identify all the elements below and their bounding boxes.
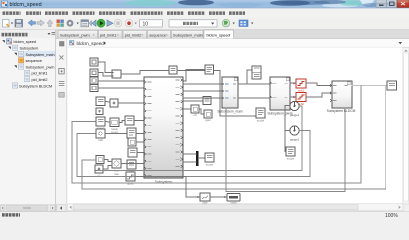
- wire big block to T1: [183, 100, 202, 102]
- svg-text:bldcm_speed: bldcm_speed: [77, 41, 105, 46]
- source block b2: [90, 69, 98, 77]
- toolbar: gear icon: [67, 20, 79, 27]
- svg-text:×: ×: [199, 32, 201, 37]
- toolbar: board icon: [239, 20, 253, 27]
- wire big block to T2: [183, 108, 190, 110]
- wire big block port1 to S2: [183, 70, 204, 81]
- display block T5: [205, 153, 214, 167]
- toolbar: [0, 18, 409, 30]
- block BL1: [200, 193, 210, 205]
- tab Subsystem_pwm: [58, 30, 98, 38]
- wire D3 to big block: [136, 141, 143, 143]
- svg-text:scope: scope: [257, 119, 265, 123]
- status bar: [0, 211, 409, 219]
- wire Q1 to BL1: [135, 177, 199, 198]
- block D3: [128, 138, 136, 146]
- svg-text:pid_limit1: pid_limit1: [100, 32, 116, 37]
- breadcrumb bar: [67, 39, 409, 48]
- block D4: [128, 148, 137, 162]
- svg-text:hall: hall: [98, 138, 103, 142]
- svg-text:pid_limit1: pid_limit1: [32, 72, 48, 76]
- svg-text:×: ×: [93, 32, 95, 37]
- toolbar: back arrow: [28, 20, 36, 26]
- mux bar MX: [196, 151, 199, 166]
- row Subsystem BLDCM: [13, 83, 18, 88]
- menu bar: [0, 8, 409, 17]
- svg-text:×: ×: [228, 32, 230, 37]
- block Q1 quantizer: [126, 172, 135, 186]
- toolbar: forward arrow: [37, 20, 45, 26]
- feedback loop L4 from B5 branch: [82, 160, 386, 189]
- app icon: [2, 1, 8, 7]
- svg-text:×: ×: [117, 32, 119, 37]
- red block R2: [296, 93, 306, 107]
- left panel: model browser: [0, 30, 56, 211]
- toolbar: up arrow: [47, 20, 53, 27]
- wire into B6: [284, 151, 287, 153]
- feedback loop L3 from B4 output: [72, 86, 361, 183]
- wire R1 to B4: [306, 83, 331, 86]
- toolbar: run button: [97, 19, 105, 27]
- svg-text:gauge1: gauge1: [290, 113, 300, 117]
- mux block M1: [112, 70, 121, 78]
- subsystem block M3: [267, 77, 292, 116]
- palette icon: box: [59, 93, 64, 98]
- row Subsystem_main: [18, 51, 56, 57]
- wire BL1 to BL2: [210, 196, 226, 198]
- svg-text:scope: scope: [287, 157, 295, 161]
- row bldcm_speed: [2, 40, 5, 43]
- row pid_limit1: [25, 70, 30, 75]
- svg-text:bldcm_speed: bldcm_speed: [14, 40, 37, 44]
- toolbar: record button: [125, 19, 137, 27]
- source block U3: [96, 108, 103, 115]
- wire W2 to V1: [119, 121, 125, 123]
- svg-text:×: ×: [166, 32, 168, 37]
- tab pid_limit2: [123, 30, 147, 38]
- tab sequence: [148, 30, 171, 38]
- wire M2 to M3 top: [247, 83, 269, 85]
- palette icon: pointer: [60, 42, 65, 47]
- svg-text:sequence: sequence: [149, 32, 166, 37]
- wires into MX: [183, 154, 196, 162]
- sum block G2: [112, 159, 121, 176]
- wire b2 to M1: [98, 73, 112, 77]
- gauge block C2: [290, 126, 300, 141]
- svg-text:Subsystem_pwm: Subsystem_pwm: [26, 65, 55, 69]
- wire T2 to T3: [199, 109, 203, 114]
- left panel h-scrollbar: [0, 205, 56, 212]
- wire M2 to SD1: [238, 70, 251, 84]
- svg-text:gauge2: gauge2: [290, 137, 300, 141]
- gain block U2: [110, 99, 118, 107]
- wire MX to T5: [199, 157, 204, 159]
- wire b3 to big block row1: [98, 80, 143, 82]
- toolbar: library icon: [57, 20, 64, 27]
- wire S1 to SD2 tap: [177, 71, 255, 117]
- wire R2 to B4: [306, 93, 331, 97]
- wire B4 to B5 (highlighted): [352, 85, 386, 87]
- block T2: [191, 105, 199, 117]
- caption buttons: [376, 0, 409, 8]
- toolbar: build icon: [222, 19, 235, 27]
- svg-text:Subsystem_pwm: Subsystem_pwm: [60, 32, 90, 37]
- stacked display SD1: [252, 66, 261, 79]
- block BL2: [227, 194, 240, 205]
- tab bldcm_speed active: [204, 30, 234, 39]
- row Subsystem: [8, 47, 11, 50]
- block D5: [127, 160, 136, 174]
- tree rows: [2, 39, 55, 89]
- tab Subsystem_main: [172, 30, 204, 38]
- vertical scrollbar: [403, 47, 409, 204]
- svg-text:Subsystem_main: Subsystem_main: [26, 53, 55, 57]
- display block U1: [96, 97, 105, 106]
- title bar: [0, 0, 409, 8]
- svg-text:pid_limit2: pid_limit2: [32, 78, 48, 82]
- wire V1 to big block: [134, 120, 143, 122]
- palette strip: [56, 39, 67, 212]
- source block P3a: [96, 156, 104, 164]
- tab bar: [56, 30, 409, 39]
- wire b4 to big block row2: [98, 87, 143, 89]
- toolbar: stop button: [114, 19, 122, 27]
- row sequence: [19, 58, 24, 63]
- row pid_limit2: [25, 77, 30, 82]
- svg-text:gain: gain: [205, 118, 211, 122]
- svg-text:scope: scope: [206, 163, 214, 167]
- feedback loop L5 from B4 bottom: [226, 108, 345, 192]
- row Subsystem_pwm: [14, 65, 17, 68]
- palette icon: lines: [59, 81, 65, 86]
- wire b1 to M1: [98, 62, 112, 73]
- red block R1: [296, 79, 306, 93]
- display block D2: [127, 128, 136, 143]
- wire G2 to big block: [121, 163, 143, 165]
- display block B6: [286, 147, 295, 161]
- palette icon: zoom: [59, 55, 63, 59]
- toolbar: config window icon: [81, 20, 89, 27]
- palette collapse button: [57, 205, 67, 212]
- display block S2: [205, 65, 214, 74]
- toolbar: step forward button: [107, 20, 113, 26]
- wire M3 to R1: [290, 82, 295, 84]
- svg-text:×: ×: [141, 32, 143, 37]
- wire W3 to big block: [105, 133, 143, 135]
- wire W1 to W2: [105, 121, 110, 124]
- svg-text:bldcm_speed: bldcm_speed: [10, 2, 42, 8]
- wire U1 to U2: [105, 101, 110, 104]
- wire M3 to R2: [290, 96, 295, 98]
- display block D1: [125, 116, 134, 125]
- svg-text:bldcm_speed: bldcm_speed: [207, 32, 230, 37]
- display block SD2: [256, 108, 265, 123]
- svg-text:100%: 100%: [385, 213, 398, 217]
- tab pid_limit1: [99, 30, 123, 38]
- toolbar: mode combo: [169, 20, 217, 27]
- svg-text:rate: rate: [114, 172, 119, 176]
- wire M2 to M3 bottom: [238, 97, 269, 99]
- toolbar: stop time field: [140, 20, 163, 28]
- display block W1: [96, 117, 105, 130]
- horizontal scrollbar: [67, 204, 403, 211]
- gain block W2: [110, 118, 119, 134]
- gauge block C1: [290, 101, 300, 116]
- svg-text:Subsystem BLDCM: Subsystem BLDCM: [19, 84, 52, 88]
- toolbar: new icon: [3, 20, 14, 28]
- inline block S1: [169, 66, 177, 74]
- wire P3b to G2: [103, 166, 112, 170]
- wire U2 to big block: [118, 102, 143, 104]
- feedback loop L2 from C2: [77, 131, 310, 177]
- display block W3: [96, 129, 105, 142]
- source block b4: [90, 85, 98, 92]
- svg-text:Subsystem: Subsystem: [20, 47, 39, 51]
- subsystem block M2: [217, 77, 242, 114]
- block T3: [204, 110, 212, 122]
- wire into C1: [285, 105, 290, 107]
- wire P3a to G2: [104, 160, 112, 162]
- toolbar: rewind button: [89, 20, 96, 26]
- display block T1: [203, 97, 211, 105]
- svg-text:10: 10: [143, 22, 149, 28]
- svg-text:Subsystem_main: Subsystem_main: [217, 110, 242, 114]
- big block Subsystem: [144, 77, 183, 184]
- source block P3b: [95, 165, 103, 178]
- canvas: [67, 47, 403, 203]
- palette icon: fit view: [59, 69, 64, 74]
- wires big block to M2: [183, 84, 221, 98]
- wire D4 to big block: [137, 152, 143, 154]
- wire into C2: [285, 130, 290, 132]
- wire M1 to S1: [121, 71, 168, 75]
- subsystem block B4 BLDCM: [327, 81, 356, 113]
- source block b3: [90, 77, 98, 84]
- feedback loop L1 from C1: [96, 106, 302, 171]
- svg-text:pid_limit2: pid_limit2: [125, 32, 141, 37]
- toolbar: save icon: [15, 20, 23, 28]
- display block B5: [387, 81, 397, 90]
- svg-text:Subsystem BLDCM: Subsystem BLDCM: [327, 109, 356, 113]
- svg-text:sequence: sequence: [26, 59, 42, 63]
- svg-text:off: off: [193, 113, 196, 117]
- source block b1: [90, 58, 98, 66]
